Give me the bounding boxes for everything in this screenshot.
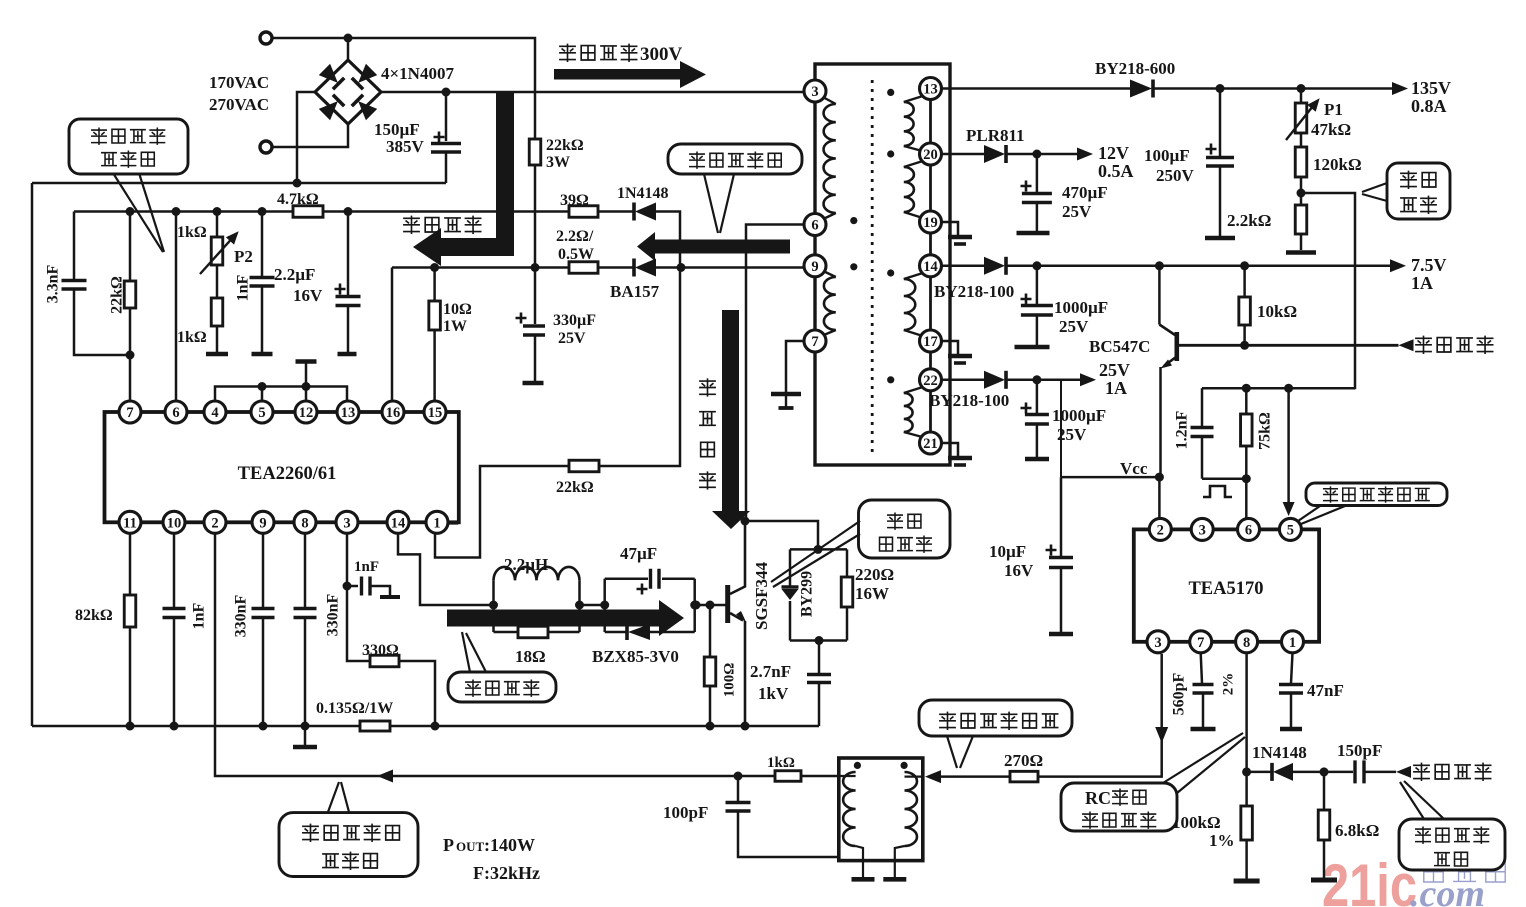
resistor 100k 1percent: [1241, 806, 1253, 840]
wire AC live to 300V corner: [272, 38, 535, 139]
svg-text:3W: 3W: [546, 154, 570, 171]
svg-text:16V: 16V: [1004, 561, 1034, 580]
wire pin8 column: [1245, 653, 1248, 806]
svg-text:2.7nF: 2.7nF: [750, 662, 791, 681]
wire pin2 sync column: [215, 533, 738, 776]
drive line arrowhead: [925, 770, 941, 783]
wire collector node: [741, 517, 750, 526]
svg-text:135V: 135V: [1411, 78, 1451, 98]
callout pointer q1: [771, 521, 860, 582]
svg-text:75kΩ: 75kΩ: [1257, 412, 1274, 450]
svg-text:220Ω: 220Ω: [855, 565, 894, 584]
driver transformer T2: [839, 758, 923, 861]
transformer pin 13: [920, 78, 942, 100]
diode BY218-100 b: [984, 371, 1005, 389]
callout error-signal-input: [1306, 483, 1447, 506]
svg-text:22: 22: [923, 373, 938, 389]
callout positive-feedback-voltage: [668, 144, 802, 174]
IC U2 bottom pin 7: [1190, 631, 1212, 653]
svg-text:14: 14: [391, 515, 406, 531]
arrow 12V: [1077, 148, 1093, 161]
wire pin14 7.5V line: [942, 265, 985, 268]
capacitor 1.2nF: [1201, 388, 1204, 426]
svg-text:1A: 1A: [1411, 273, 1433, 293]
resistor 18ohm: [494, 631, 519, 634]
IC U1 bottom pin 9: [252, 511, 274, 533]
svg-text:100kΩ: 100kΩ: [1172, 813, 1221, 832]
svg-text:6: 6: [811, 218, 818, 234]
IC U1 bottom pin 1: [426, 511, 448, 533]
IC U1 bottom pin 3: [336, 511, 358, 533]
thick arrow switch current: [712, 310, 750, 529]
secondary winding 20-19: [904, 160, 926, 167]
IC U1 top pin 4: [204, 401, 226, 423]
svg-text:47kΩ: 47kΩ: [1311, 120, 1351, 139]
IC U1 bottom pin 2: [204, 511, 226, 533]
pulse symbol pin3: [1203, 486, 1232, 497]
svg-text:25V: 25V: [1062, 202, 1092, 221]
pin7 ground: [786, 341, 804, 393]
wire 22k to pin1 loop: [435, 466, 569, 558]
svg-text:25V: 25V: [1099, 360, 1130, 380]
resistor 1k drive: [775, 771, 801, 782]
svg-text:5: 5: [1287, 522, 1294, 538]
IC U2 top pin 3: [1191, 518, 1213, 540]
diode 1N4148 sync: [1273, 763, 1293, 781]
svg-text:3: 3: [343, 515, 350, 531]
IC U1 top pin 12: [295, 401, 317, 423]
capacitor 1nF pin10: [173, 533, 176, 607]
thick arrow positive feedback: [637, 232, 790, 261]
svg-text:20: 20: [923, 147, 938, 163]
wire 135V line: [1153, 87, 1392, 90]
capacitor 330nF pin9: [262, 533, 265, 607]
svg-text:1.2nF: 1.2nF: [1174, 410, 1191, 449]
wire comp bottom tie: [1202, 477, 1246, 480]
potentiometer P1: [1300, 89, 1303, 104]
resistor 82k: [129, 533, 132, 595]
wire standby line: [1179, 344, 1399, 347]
diode BY218-100 a: [984, 257, 1005, 275]
svg-text:22kΩ: 22kΩ: [546, 137, 584, 154]
secondary winding 13-20: [904, 95, 926, 102]
IC U2 TEA5170 body: [1134, 529, 1319, 641]
svg-text:1nF: 1nF: [235, 274, 252, 301]
svg-text:PLR811: PLR811: [966, 126, 1025, 145]
transistor Q2 BC547C: [1158, 266, 1161, 325]
capacitor 10uF 16V: [1060, 477, 1063, 556]
svg-text:TEA5170: TEA5170: [1188, 579, 1263, 599]
wire feedback line left: [392, 266, 569, 269]
svg-text:BY218-100: BY218-100: [929, 391, 1009, 410]
potentiometer P2: [216, 212, 219, 238]
svg-text:2: 2: [211, 515, 218, 531]
svg-text:P2: P2: [234, 247, 253, 266]
wire bottom rail right: [390, 725, 819, 728]
wire BY299 top rail: [790, 548, 847, 551]
inductor 2.2uH: [492, 580, 495, 632]
svg-text:6: 6: [1245, 522, 1252, 538]
svg-text:BZX85-3V0: BZX85-3V0: [592, 647, 679, 666]
svg-text:BA157: BA157: [610, 282, 660, 301]
svg-text:1nF: 1nF: [191, 602, 208, 629]
callout drive-pulse-signal: [919, 700, 1072, 736]
diode BY218-600: [1130, 80, 1152, 98]
arrow 25V: [1080, 373, 1096, 386]
svg-text:7: 7: [811, 334, 818, 350]
resistor 4.7k: [293, 206, 323, 218]
svg-text:47µF: 47µF: [620, 544, 657, 563]
wire pin22 25V line: [942, 379, 985, 382]
transformer pin 14: [920, 255, 942, 277]
transformer pin 6: [804, 214, 826, 236]
svg-text:10Ω: 10Ω: [443, 301, 472, 318]
svg-text:4.7kΩ: 4.7kΩ: [277, 191, 319, 208]
IC U2 top pin 2: [1149, 518, 1171, 540]
transformer pin 19: [920, 211, 942, 233]
wire pin14 to driver: [398, 533, 494, 605]
wire pin5 feed: [1287, 388, 1290, 504]
thick arrow drive current: [447, 600, 684, 636]
svg-text:12: 12: [299, 405, 314, 421]
wire drive line to 270ohm: [941, 775, 1010, 778]
transformer pin 9: [804, 255, 826, 277]
IC U2 top pin 6: [1238, 518, 1260, 540]
svg-text:1kΩ: 1kΩ: [767, 755, 795, 771]
svg-text:BC547C: BC547C: [1089, 337, 1150, 356]
svg-text:330Ω: 330Ω: [362, 642, 399, 659]
wire pin6 column: [175, 212, 178, 402]
svg-text:270Ω: 270Ω: [1004, 751, 1043, 770]
primary winding 3-6: [819, 95, 836, 104]
svg-text:16V: 16V: [293, 286, 323, 305]
capacitor 1000uF 25V b: [1036, 380, 1039, 413]
capacitor 100pF: [737, 776, 740, 801]
IC U2 bottom pin 8: [1236, 631, 1258, 653]
svg-text:47nF: 47nF: [1307, 681, 1344, 700]
callout error-signal-input-terminal: [69, 119, 188, 174]
capacitor 330uF 25V: [534, 268, 537, 325]
svg-text:1N4148: 1N4148: [1252, 743, 1307, 762]
svg-text:2: 2: [1157, 522, 1164, 538]
label switch current vertical: [700, 379, 715, 396]
svg-text:7.5V: 7.5V: [1411, 255, 1447, 275]
svg-text:5: 5: [258, 405, 265, 421]
svg-text:SGSF344: SGSF344: [752, 561, 771, 630]
bridge diode D4: [352, 95, 377, 120]
svg-text:Vcc: Vcc: [1120, 459, 1148, 478]
capacitor 100uF 250V: [1219, 89, 1222, 157]
callout line-sync-input: [279, 813, 418, 877]
wire diode to junction: [1293, 771, 1324, 774]
resistor 10k: [1243, 266, 1246, 297]
wire pin15-pin1 link: [446, 412, 457, 523]
svg-text:1%: 1%: [1209, 831, 1235, 850]
svg-text:22kΩ: 22kΩ: [556, 479, 594, 496]
transformer pin 20: [920, 143, 942, 165]
svg-text:270VAC: 270VAC: [209, 95, 269, 114]
svg-text:9: 9: [259, 515, 266, 531]
svg-text:1nF: 1nF: [354, 559, 379, 575]
svg-text:1: 1: [433, 515, 440, 531]
svg-text:2.2µH: 2.2µH: [504, 555, 548, 574]
resistor 220ohm 16W: [846, 549, 849, 577]
svg-text:14: 14: [923, 259, 938, 275]
capacitor 3.3nF: [73, 212, 76, 280]
svg-text:39Ω: 39Ω: [560, 192, 589, 209]
AC input terminal top: [260, 32, 272, 44]
wire 300V bus to transformer pin 3: [381, 91, 815, 94]
svg-text:16: 16: [386, 405, 401, 421]
svg-text:330nF: 330nF: [233, 594, 250, 637]
svg-text:470µF: 470µF: [1062, 183, 1108, 202]
IC U1 bottom pin 11: [119, 511, 141, 533]
resistor 100ohm: [709, 605, 712, 657]
phase dots: [850, 217, 857, 224]
transformer pin 7: [804, 330, 826, 352]
svg-text:7: 7: [126, 405, 133, 421]
wire 1k to transformer: [801, 775, 839, 778]
transformer pin 22: [920, 369, 942, 391]
wire pin6 to collector riser: [746, 225, 804, 522]
svg-text:150pF: 150pF: [1337, 741, 1382, 760]
label startup current: [404, 216, 419, 233]
wire Vcc line: [1061, 476, 1159, 479]
svg-text:F:32kHz: F:32kHz: [473, 863, 540, 883]
svg-text:11: 11: [123, 515, 137, 531]
svg-text:13: 13: [341, 405, 356, 421]
transformer T1 frame: [815, 64, 950, 465]
diode 1N4148 startup: [635, 203, 656, 221]
svg-text:25V: 25V: [1059, 317, 1089, 336]
resistor 75k: [1245, 388, 1248, 414]
IC U1 top pin 15: [424, 401, 446, 423]
diode PLR811: [984, 145, 1005, 163]
svg-text:2%: 2%: [1220, 673, 1236, 696]
wire 330ohm to rail: [399, 661, 435, 726]
resistor 6.8k: [1323, 772, 1326, 810]
wire LR nodes: [489, 601, 498, 610]
svg-text:13: 13: [923, 82, 938, 98]
wire Vcc riser: [1060, 380, 1062, 477]
callout pointer es: [1362, 183, 1387, 192]
capacitor 560pF: [1201, 653, 1202, 683]
svg-text:330nF: 330nF: [325, 593, 342, 636]
capacitor 150pF: [1324, 771, 1353, 774]
svg-text:100Ω: 100Ω: [721, 663, 737, 698]
svg-text:2.2kΩ: 2.2kΩ: [1227, 211, 1271, 230]
transformer core dashed: [871, 80, 874, 458]
driver transformer ground bars: [852, 877, 875, 882]
capacitor 470uF 25V: [1036, 154, 1039, 192]
callout error-sampling: [1387, 163, 1450, 219]
svg-text:120kΩ: 120kΩ: [1313, 155, 1362, 174]
wire pin13 135V line: [942, 87, 1131, 90]
svg-text:3: 3: [1154, 635, 1161, 651]
svg-text:1: 1: [1289, 635, 1296, 651]
svg-text:4: 4: [211, 405, 218, 421]
svg-text:1kΩ: 1kΩ: [177, 224, 207, 241]
ground tie pin12: [296, 359, 317, 364]
wire 25V line: [1006, 379, 1081, 382]
svg-text:170VAC: 170VAC: [209, 73, 269, 92]
resistor 2.2k: [1295, 205, 1307, 234]
callout pointer sync: [328, 782, 339, 812]
drive arrowhead down: [1155, 727, 1168, 743]
wire startup corner: [656, 212, 680, 268]
svg-text:3: 3: [1199, 522, 1206, 538]
resistor 330ohm: [370, 655, 399, 667]
IC U1 bottom pin 14: [387, 511, 409, 533]
svg-text:1A: 1A: [1105, 378, 1127, 398]
resistor 270ohm: [1010, 771, 1038, 782]
svg-text:100µF: 100µF: [1144, 146, 1190, 165]
svg-text:18Ω: 18Ω: [515, 647, 546, 666]
callout pointer pf: [704, 174, 718, 233]
wire bottom rail left: [32, 725, 360, 728]
arrow sync input: [1396, 766, 1411, 778]
wire bridge top feed: [347, 38, 350, 60]
capacitor 1nF pin3: [347, 585, 358, 588]
svg-text:10kΩ: 10kΩ: [1257, 302, 1297, 321]
svg-text:560pF: 560pF: [1171, 672, 1188, 715]
IC U1 top pin 7: [119, 401, 141, 423]
wire to BA157: [598, 266, 634, 269]
svg-text:6.8kΩ: 6.8kΩ: [1335, 821, 1379, 840]
svg-text:OUT: OUT: [456, 839, 485, 854]
svg-text:3.3nF: 3.3nF: [45, 264, 62, 303]
svg-text:16W: 16W: [855, 584, 889, 603]
resistor 39ohm: [569, 206, 598, 218]
resistor 120k: [1300, 133, 1303, 147]
arrow standby: [1399, 339, 1414, 351]
thick arrow rectified output: [554, 61, 706, 88]
IC U1 top pin 5: [251, 401, 273, 423]
svg-text:P1: P1: [1324, 100, 1343, 119]
bridge diode D3: [319, 95, 344, 120]
svg-text:82kΩ: 82kΩ: [75, 607, 113, 624]
svg-text:8: 8: [1243, 635, 1250, 651]
svg-text:385V: 385V: [386, 137, 425, 156]
wire node line mid: [323, 210, 569, 213]
resistor 0.135ohm 1W: [360, 721, 390, 731]
primary winding 9-7: [819, 269, 836, 277]
wire negative rail horizontal: [32, 182, 446, 185]
wire left rail: [31, 183, 34, 726]
wire comp line: [1202, 387, 1355, 390]
sync arrowhead: [377, 770, 393, 783]
wire AC neutral to bridge bottom: [272, 124, 348, 147]
pin19 ground: [942, 222, 959, 236]
callout RC-time-constant: [1061, 783, 1177, 831]
wire pin16 riser: [391, 268, 394, 402]
wire bridge negative rail: [297, 92, 315, 183]
resistor 2.2ohm 0.5W: [569, 262, 598, 274]
label sync-pulse: [1414, 763, 1429, 780]
svg-text:19: 19: [923, 215, 938, 231]
transformer pin 17: [920, 330, 942, 352]
callout pointer drive: [462, 632, 470, 672]
arrow 135V: [1392, 82, 1408, 95]
svg-text:17: 17: [923, 334, 938, 350]
svg-text:250V: 250V: [1156, 166, 1195, 185]
svg-text:0.5W: 0.5W: [558, 246, 594, 263]
IC U1 bottom pin 10: [163, 511, 185, 533]
svg-text:1W: 1W: [443, 318, 467, 335]
callout pointer esi: [1298, 506, 1320, 521]
capacitor 2.7nF 1kV: [818, 641, 821, 674]
wire BY299 bottom rail: [790, 639, 847, 642]
label rectified-output-300V: [560, 44, 575, 61]
capacitor 1000uF 25V a: [1036, 266, 1039, 304]
wire pin20 12V line: [942, 153, 985, 156]
svg-text:1000µF: 1000µF: [1054, 298, 1108, 317]
capacitor 47uF: [603, 579, 606, 632]
watermark dianziwang: [1424, 861, 1443, 882]
svg-text:330µF: 330µF: [553, 312, 596, 329]
damper diode BY299: [789, 549, 792, 587]
svg-text:100pF: 100pF: [663, 803, 708, 822]
callout excitation-signal-input: [1399, 819, 1505, 870]
svg-text:4×1N4007: 4×1N4007: [381, 64, 454, 83]
transistor Q1 SGSF344: [725, 585, 730, 623]
svg-text:22kΩ: 22kΩ: [109, 276, 126, 314]
wire feedback-22k riser: [599, 268, 680, 467]
wire Vcc to pin2: [1158, 477, 1161, 518]
svg-text:12V: 12V: [1098, 143, 1129, 163]
resistor 1k lower: [216, 265, 219, 298]
svg-text:15: 15: [428, 405, 443, 421]
svg-text:21: 21: [923, 436, 938, 452]
IC U2 bottom pin 3: [1147, 631, 1169, 653]
callout pointer: [113, 173, 163, 252]
diode BZX85-3V0: [605, 631, 627, 634]
transformer pin 3: [804, 80, 826, 102]
wire pins 4-5-12-13 tie: [215, 387, 347, 402]
svg-text:9: 9: [811, 259, 818, 275]
svg-text::140W: :140W: [484, 835, 535, 855]
resistor 22k 3W: [529, 139, 541, 165]
wire 12V line: [1006, 153, 1078, 156]
callout drive-current: [448, 672, 556, 702]
callout pointer rc: [1163, 733, 1243, 783]
svg-text:TEA2260/61: TEA2260/61: [238, 464, 337, 484]
wire node line left: [74, 210, 293, 213]
arrow into pin5: [1283, 502, 1295, 516]
capacitor 150uF 385V: [445, 92, 448, 141]
secondary column: [929, 89, 932, 444]
thick arrow startup current: [413, 93, 514, 266]
svg-text:BY218-600: BY218-600: [1095, 59, 1175, 78]
svg-text:BY299: BY299: [799, 571, 816, 617]
svg-text:3: 3: [811, 84, 818, 100]
IC U1 top pin 13: [337, 401, 359, 423]
wire to diode: [598, 210, 634, 213]
capacitor 2.2uF 16V: [347, 212, 350, 296]
pin17 ground: [942, 341, 959, 355]
resistor 10ohm 1W: [433, 268, 436, 302]
svg-text:2.2Ω/: 2.2Ω/: [556, 228, 594, 245]
arrow 7.5V: [1390, 259, 1406, 272]
secondary winding 22-21: [904, 386, 926, 393]
IC U1 top pin 16: [382, 401, 404, 423]
AC input terminal bottom: [260, 141, 272, 153]
IC U1 bottom pin 8: [294, 511, 316, 533]
IC U1 top pin 6: [165, 401, 187, 423]
wire to 1N4148: [1247, 771, 1272, 774]
IC U1 TEA2260/61 body: [105, 412, 459, 522]
bridge diode D1: [319, 64, 344, 89]
